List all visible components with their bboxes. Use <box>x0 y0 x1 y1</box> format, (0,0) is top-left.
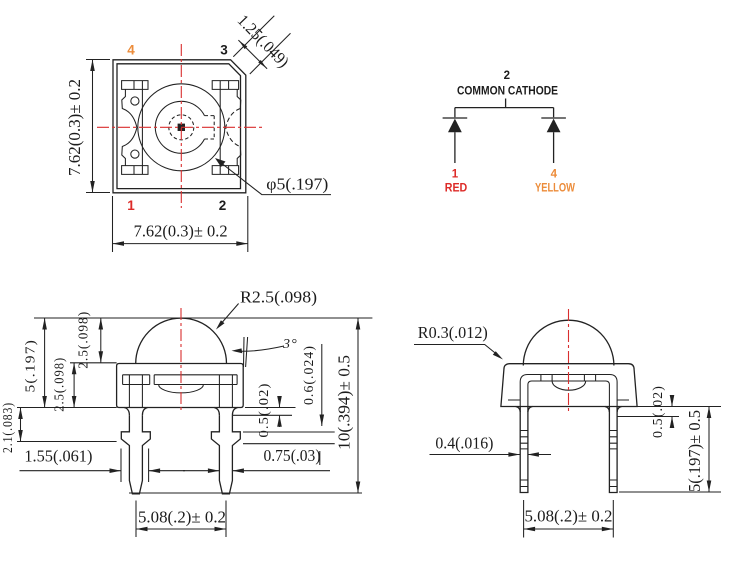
inner dashed circle <box>169 115 194 140</box>
right leg tick marks <box>609 431 617 487</box>
dim 5.08 extension lines <box>524 500 614 538</box>
red centerline <box>568 309 570 414</box>
red centerline vertical <box>180 44 182 208</box>
dim 0.4 arrows <box>430 454 552 456</box>
lead frame inner U <box>528 381 610 407</box>
chamfer dimension 1.25 line <box>238 40 267 69</box>
bus wire <box>455 107 554 109</box>
dim 1.55 arrows <box>20 470 186 472</box>
dim 2.5 upper extension (body top left) <box>70 362 117 364</box>
left lead bottom tab <box>122 166 148 175</box>
red centerline <box>180 308 182 412</box>
dim 2.5 upper line <box>100 318 102 363</box>
svg-text:2.5(.098): 2.5(.098) <box>53 357 68 412</box>
svg-text:1.55(.061): 1.55(.061) <box>24 447 92 466</box>
left lead hole lower <box>131 150 139 158</box>
lead band upper line <box>123 374 238 376</box>
die (center square) <box>178 124 185 131</box>
right lead bottom tab <box>212 166 238 175</box>
leg tip extension line <box>129 492 362 494</box>
dim 0.5 arrows <box>671 395 673 428</box>
body bottom extension line <box>637 406 721 408</box>
phi5 leader arrow <box>215 158 226 167</box>
leg tip extension line <box>619 491 721 493</box>
leg lines inside body <box>129 375 232 408</box>
reflector cup <box>159 385 204 393</box>
dim 5(.197) line <box>44 318 46 408</box>
svg-text:R2.5(.098): R2.5(.098) <box>240 288 317 307</box>
svg-text:2: 2 <box>219 198 227 213</box>
dim 2.5 lower line <box>73 363 75 408</box>
dim 5.08 line <box>136 528 226 530</box>
dim 5.08 extension lines <box>136 501 226 538</box>
dim 0.5 arrows <box>279 396 281 427</box>
body flange <box>117 364 244 408</box>
svg-text:5.08(.2)± 0.2: 5.08(.2)± 0.2 <box>525 507 613 526</box>
lead band lower line <box>123 384 238 386</box>
diode D1 cathode bar <box>443 117 468 119</box>
right leg fillets <box>214 408 237 416</box>
svg-text:7.62(0.3)± 0.2: 7.62(0.3)± 0.2 <box>134 222 228 241</box>
lens circle phi5 <box>138 84 225 171</box>
diode D2 triangle <box>547 119 561 133</box>
dim 0.5 extensions <box>232 408 295 416</box>
wire anode 4 <box>553 132 555 163</box>
svg-text:5(.197)± 0.5: 5(.197)± 0.5 <box>685 410 704 492</box>
left leg <box>121 415 150 494</box>
bottom dimension 7.62 extension lines <box>113 196 248 252</box>
svg-text:2.5(.098): 2.5(.098) <box>77 311 92 369</box>
left leg fillets <box>124 408 147 416</box>
crimp extension lines <box>243 432 335 444</box>
svg-text:0.6(.024): 0.6(.024) <box>302 345 317 405</box>
C notch dashed bracket <box>205 116 215 139</box>
left lead bar right edge <box>141 89 143 165</box>
svg-text:1: 1 <box>127 198 135 213</box>
dim 5.08 line <box>524 528 614 530</box>
dim 0.5 extension line <box>617 416 679 418</box>
left lead top tab <box>122 81 148 90</box>
package inner outline <box>117 64 241 189</box>
right leg fillets <box>605 407 622 413</box>
R2.5 leader arrow <box>219 304 239 327</box>
right leg <box>211 415 240 494</box>
svg-text:2: 2 <box>504 70 510 82</box>
left lead wavy outer edge <box>122 89 137 165</box>
dim 2.1 line <box>20 408 22 442</box>
svg-text:2.1(.083): 2.1(.083) <box>1 402 16 453</box>
svg-text:5.08(.2)± 0.2: 5.08(.2)± 0.2 <box>138 508 226 527</box>
svg-text:YELLOW: YELLOW <box>535 183 575 195</box>
left leg <box>520 407 528 493</box>
left leg tick marks <box>520 431 528 487</box>
dome R2.5 <box>136 318 227 363</box>
svg-text:R0.3(.012): R0.3(.012) <box>418 323 488 342</box>
svg-text:0.5(.02): 0.5(.02) <box>651 385 666 438</box>
lead band end caps <box>123 375 238 385</box>
svg-text:3: 3 <box>220 43 228 58</box>
dim 0.6 line <box>321 344 323 426</box>
left lead hole upper <box>131 97 139 105</box>
top extension line <box>34 317 372 319</box>
body flange <box>501 364 637 407</box>
dim 5(.197) line <box>708 407 710 493</box>
left dimension 7.62 line <box>92 60 94 193</box>
right lead bar left edge <box>219 89 221 165</box>
wire left drop <box>454 108 456 118</box>
svg-text:4: 4 <box>127 43 135 58</box>
svg-text:3°: 3° <box>282 337 298 352</box>
svg-text:RED: RED <box>445 183 468 195</box>
bend lines near body bottom <box>508 399 629 401</box>
wire stub from label to bus <box>505 99 507 108</box>
right lead wavy outer edge <box>237 89 241 165</box>
svg-text:0.5(.02): 0.5(.02) <box>257 383 272 438</box>
dim 10(.394) line <box>357 318 359 493</box>
band ticks <box>541 375 596 382</box>
3 degree draft lines <box>244 337 248 367</box>
dome R2.5 <box>523 320 614 365</box>
dim 5(.197) extension (body bottom left) <box>17 407 117 409</box>
chamfer dimension 1.25 extension lines <box>233 16 290 74</box>
left dimension 7.62 extension lines <box>86 60 110 193</box>
right leg <box>609 407 617 493</box>
svg-text:0.4(.016): 0.4(.016) <box>435 434 493 453</box>
diode D2 cathode bar <box>541 117 566 119</box>
svg-text:4: 4 <box>551 169 558 181</box>
reflector cup <box>552 381 586 390</box>
R0.3 leader arrow <box>414 345 500 357</box>
dim 0.75 arrows <box>183 470 330 472</box>
svg-text:5(.197): 5(.197) <box>24 339 39 393</box>
lead frame outer U <box>520 375 617 407</box>
wire anode 1 <box>454 132 456 163</box>
diode D1 triangle <box>448 119 462 133</box>
bottom dimension 7.62 line <box>113 243 248 245</box>
svg-text:φ5(.197): φ5(.197) <box>266 175 328 194</box>
3 degree leader <box>235 346 284 351</box>
red centerline horizontal <box>97 126 263 128</box>
package outer outline with corner cut <box>113 60 246 193</box>
dim 2.1 extension line <box>17 441 117 443</box>
svg-text:0.75(.03): 0.75(.03) <box>264 446 321 465</box>
svg-text:1: 1 <box>452 169 459 181</box>
dim 1.55 extension lines <box>121 449 149 483</box>
right lead top tab <box>212 81 238 90</box>
svg-text:COMMON CATHODE: COMMON CATHODE <box>457 86 558 98</box>
reflector ring with C notch <box>155 101 204 153</box>
svg-text:7.62(0.3)± 0.2: 7.62(0.3)± 0.2 <box>65 79 84 176</box>
wire right drop <box>553 108 555 118</box>
left leg fillets <box>516 407 533 413</box>
svg-text:10(.394)± 0.5: 10(.394)± 0.5 <box>335 355 354 450</box>
